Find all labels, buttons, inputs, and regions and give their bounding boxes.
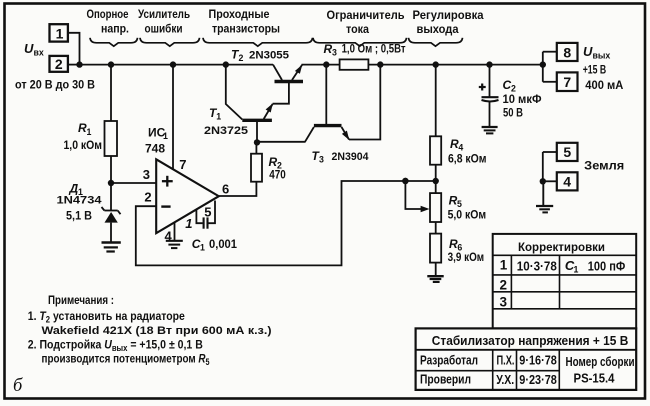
svg-text:0,001: 0,001 [209,237,237,251]
brace under Усилитель ошибки [140,38,200,46]
svg-text:3: 3 [500,295,508,310]
svg-text:Разработал: Разработал [420,353,478,368]
wire T1 emitter to T2 base [273,83,289,104]
node T1 base / R2 / T3 collector [254,139,260,145]
wire to terminal 8 [543,51,557,53]
label ИС1 748 [145,126,168,156]
svg-text:7: 7 [179,157,186,172]
svg-text:+15 В: +15 В [583,63,607,77]
wire ground branch vertical [542,152,544,181]
capacitor C2 [482,97,499,101]
terminal 1 [50,24,68,41]
svg-text:1. T2 установить на радиаторе: 1. T2 установить на радиаторе [28,309,185,325]
wire output branch vertical [542,52,544,82]
label: Усилитель ошибки [138,7,190,36]
label R4 6,8 кОм [448,137,487,166]
svg-text:Ограничитель: Ограничитель [327,8,405,22]
potentiometer R5 [430,193,441,222]
node zener/pin3 junction [108,180,114,186]
label R3 1,0 Ом ; 0,5Вт [324,42,406,58]
svg-text:Земля: Земля [584,159,624,173]
svg-text:5,1 В: 5,1 В [66,209,92,223]
wire main rail right segment [368,64,542,66]
resistor R6 [430,234,441,263]
svg-text:7: 7 [563,74,571,90]
minus sign [161,205,170,207]
pin 4 ground stem [174,223,176,241]
brace under Регулировка выхода [409,38,463,46]
svg-text:Усилитель: Усилитель [138,7,190,21]
wire main rail T2 emitter to R3 [302,64,340,66]
resistor R4 [430,136,441,164]
wire T1 base down [256,121,258,142]
svg-text:Wakefield 421X (18 Вт при 600: Wakefield 421X (18 Вт при 600 мА к.з.) [42,325,272,337]
ground at R6 [427,276,443,282]
transistor T2 collector [273,65,282,80]
wire T3 emitter to output rail node [349,65,380,140]
svg-text:1: 1 [163,131,168,141]
node R1 branch [108,61,114,67]
svg-text:Опорное: Опорное [87,7,129,21]
transistor T3 emitter with arrow [342,127,350,140]
wire R6 to ground [435,263,437,277]
svg-text:U: U [583,44,593,59]
svg-text:вх: вх [34,48,44,58]
wire rail to R1 [110,65,112,121]
wire node to op-amp pin 3 [111,182,156,184]
svg-text:748: 748 [145,142,165,156]
svg-text:6: 6 [222,182,229,197]
transistor T2 emitter with arrow [292,65,302,80]
wire rail to T1 collector [226,65,243,120]
ground at terminals [536,206,553,212]
label Uвых +15 В 400 мА [583,44,624,92]
svg-text:3: 3 [332,48,337,58]
svg-text:1: 1 [56,25,64,41]
wire rail to C2 [489,65,491,98]
pin 1 stub [196,210,202,223]
corrections table [493,234,637,329]
plus sign [162,176,173,187]
capacitor C2 polarity plus [479,84,486,91]
node op-amp supply branch [170,61,176,67]
terminal 7 [557,72,578,91]
svg-text:470: 470 [269,168,286,182]
transistor T1 emitter with arrow [264,103,273,119]
wire C2 to ground [489,102,491,128]
svg-text:У.Х.: У.Х. [496,372,514,387]
svg-text:1: 1 [185,216,192,231]
svg-text:ошибки: ошибки [145,22,183,36]
svg-text:400 мА: 400 мА [585,78,623,92]
label T1 2N3725 [204,106,248,137]
brace under Проходные транзисторы [203,38,313,46]
label: Опорное напр. [87,7,130,36]
svg-text:2: 2 [55,56,63,72]
label R2 470 [269,155,287,182]
svg-text:выхода: выхода [417,22,459,36]
svg-text:1: 1 [200,243,205,253]
svg-text:100 пФ: 100 пФ [588,259,626,274]
resistor R3 [340,59,369,69]
wire zener to ground [110,223,112,243]
svg-text:Примечания :: Примечания : [48,293,114,307]
label: Ограничитель тока [327,8,405,36]
wire pin 7 [172,65,174,170]
svg-text:1,0 кОм: 1,0 кОм [64,138,103,152]
svg-text:Д: Д [69,182,79,196]
svg-text:2: 2 [144,190,151,205]
label C2 10 мкФ 50 В [503,78,542,120]
svg-text:Проходные: Проходные [209,7,270,21]
label Д1 1N4734 5,1 В [57,182,102,223]
svg-text:П.Х.: П.Х. [497,353,515,368]
transistor T3 base bar [314,124,342,127]
svg-text:1,0 Ом ; 0,5Вт: 1,0 Ом ; 0,5Вт [342,42,406,56]
svg-text:от 20 В до 30 В: от 20 В до 30 В [15,78,95,92]
wire to chassis ground [542,181,544,206]
wire node to zener D1 [110,183,112,211]
label Uвх [24,41,44,58]
svg-text:вых: вых [593,51,611,61]
svg-text:5,0 кОм: 5,0 кОм [448,207,487,221]
label C1 0,001 [192,237,238,253]
svg-text:1N4734: 1N4734 [57,195,102,207]
svg-text:6,8 кОм: 6,8 кОм [448,152,487,166]
svg-text:1: 1 [87,127,92,137]
terminal 4 [557,172,578,190]
svg-text:2: 2 [500,278,508,293]
svg-text:Регулировка: Регулировка [413,8,484,22]
svg-text:1: 1 [500,258,508,273]
transistor T2 base bar [275,80,304,83]
svg-text:50 В: 50 В [503,106,523,120]
R5 wiper arrow [402,178,429,212]
svg-text:3: 3 [143,167,150,182]
node ground terminal junction [540,178,546,184]
wire R5 to R6 [435,222,437,234]
wire op-amp pin 6 to R2 [219,182,256,196]
svg-text:PS-15.4: PS-15.4 [574,371,616,386]
svg-text:8: 8 [563,44,571,60]
brace under Опорное напр. [90,38,138,46]
svg-text:Корректировки: Корректировки [518,240,605,254]
label T2 2N3055 [231,48,289,64]
wire rail to R4 [435,65,437,137]
notes text [28,293,272,367]
transistor T1 base bar [242,119,272,122]
brace under Ограничитель тока [313,38,407,46]
svg-text:9·16·78: 9·16·78 [519,353,557,368]
svg-text:2N3055: 2N3055 [249,50,289,62]
zener diode D1 [102,207,121,223]
node feedback / wiper junction [402,178,408,184]
wire to terminal 4 [543,180,557,182]
wire T3 base [325,65,327,124]
svg-text:4: 4 [563,174,571,190]
wire terminal2 to input node [68,64,80,66]
resistor R1 [105,121,118,156]
wire to terminal 5 [543,151,557,153]
node R4 branch [433,61,439,67]
label R5 5,0 кОм [448,194,487,222]
wire R4 to divider node [435,165,437,193]
node output branch [540,61,546,67]
node T1 collector branch [223,61,229,67]
svg-text:5: 5 [204,205,211,220]
ground at D1 [102,243,121,252]
ground at C2 [482,127,498,133]
capacitor C1 [204,217,208,228]
node T3 base branch [323,61,329,67]
terminal 5 [557,143,578,161]
node C2 branch [486,61,492,67]
wire R1 to node [110,156,112,183]
svg-text:5: 5 [563,144,571,160]
svg-text:10·3·78: 10·3·78 [517,259,557,274]
transistor T3 collector [305,127,314,142]
title block [416,328,637,390]
label: Регулировка выхода [413,8,484,36]
svg-text:Номер сборки: Номер сборки [566,354,635,369]
svg-text:напр.: напр. [101,22,129,36]
node divider tap [433,178,439,184]
label R1 1,0 кОм [64,121,103,152]
wire R2 to T1 base node [255,142,257,153]
ground at pin 4 [166,241,183,248]
svg-text:Стабилизатор напряжения + 15 В: Стабилизатор напряжения + 15 В [432,333,629,348]
node input junction [76,61,82,67]
svg-text:2N3725: 2N3725 [204,125,248,137]
node R3 right / T3 emitter [377,61,383,67]
svg-text:U: U [24,41,34,56]
wire to terminal 7 [543,81,557,83]
svg-text:Проверил: Проверил [420,372,471,387]
svg-text:2: 2 [239,53,244,63]
wire op-amp pin 2 feedback [136,181,436,265]
svg-text:9·23·78: 9·23·78 [519,372,557,387]
resistor R2 [251,154,262,182]
svg-text:б: б [13,376,23,396]
label R6 3,9 кОм [448,237,485,264]
svg-text:1: 1 [216,112,221,122]
svg-text:2N3904: 2N3904 [332,151,369,163]
svg-text:транзисторы: транзисторы [212,22,280,36]
wire T3 collector to T1 base node [257,141,306,143]
svg-text:3,9 кОм: 3,9 кОм [448,250,485,264]
svg-text:тока: тока [346,22,369,36]
terminal 8 [557,43,578,61]
svg-text:10 мкФ: 10 мкФ [503,92,542,106]
pin 5 stub [208,201,215,224]
label T3 2N3904 [312,149,369,165]
terminal 2 [50,56,68,72]
label: Проходные транзисторы [209,7,281,36]
wire terminal1 to input node [68,33,80,65]
svg-text:производится потенциометром R5: производится потенциометром R5 [42,352,210,368]
wire main rail left segment [80,64,274,66]
svg-text:3: 3 [319,155,324,165]
op-amp U1 748 triangle [156,159,219,233]
svg-text:1: 1 [574,265,579,275]
